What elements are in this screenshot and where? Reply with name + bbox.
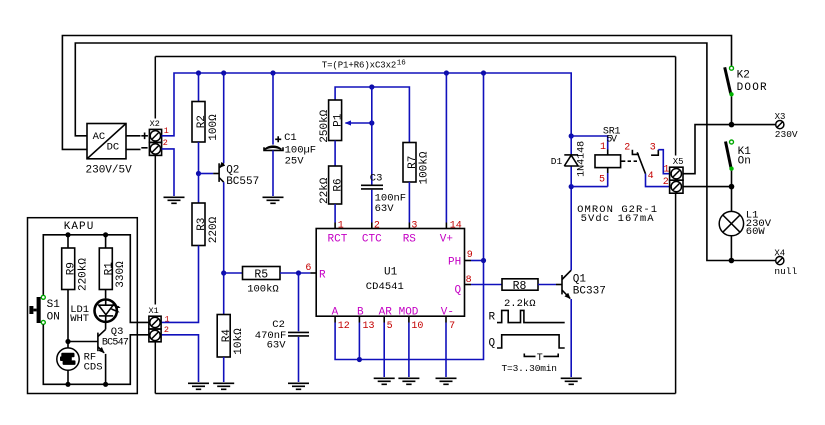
svg-text:R5: R5 bbox=[254, 269, 268, 282]
wire V- pin 7 to ground bbox=[445, 316, 447, 322]
relay SR1 coil bbox=[571, 126, 657, 224]
svg-text:1: 1 bbox=[600, 142, 606, 153]
capacitor C3 100nF bbox=[361, 173, 406, 215]
svg-text:Q2: Q2 bbox=[226, 164, 239, 176]
svg-text:5: 5 bbox=[387, 321, 393, 332]
svg-text:R2: R2 bbox=[196, 115, 208, 128]
svg-text:X1: X1 bbox=[149, 306, 159, 316]
svg-text:100Ω: 100Ω bbox=[208, 114, 220, 141]
svg-text:DOOR: DOOR bbox=[737, 82, 767, 94]
wire R8 to Q1 base bbox=[538, 284, 556, 286]
waveform Q with period T bbox=[489, 335, 565, 374]
wire P1 to R6 bbox=[334, 141, 336, 167]
wire mains phase: X2-2 up over top to K2 bbox=[62, 36, 731, 150]
svg-text:1: 1 bbox=[165, 315, 170, 325]
svg-text:7: 7 bbox=[449, 321, 455, 332]
wire rail to U1 pin 14 V+ bbox=[445, 73, 447, 223]
svg-text:9: 9 bbox=[467, 250, 473, 261]
junction relay top bbox=[569, 133, 574, 138]
junction at X3 bbox=[729, 122, 735, 128]
svg-text:2: 2 bbox=[163, 138, 168, 148]
svg-text:S1: S1 bbox=[47, 299, 61, 311]
svg-text:P1: P1 bbox=[333, 113, 345, 127]
LED LD1 WHT bbox=[70, 290, 120, 326]
junction lamp/X4/neutral bbox=[729, 258, 735, 264]
wire base node down to R3 bbox=[198, 174, 200, 204]
svg-text:BC337: BC337 bbox=[573, 285, 606, 297]
wire R7 to U1 pin 3 bbox=[408, 182, 410, 223]
svg-text:X4: X4 bbox=[774, 248, 785, 258]
terminal X4 null bbox=[774, 248, 797, 277]
wire contact pin 3 to X5-1 bbox=[658, 150, 669, 174]
wire X1-2 to ground bbox=[162, 335, 199, 382]
svg-text:25V: 25V bbox=[285, 156, 305, 168]
svg-text:DC: DC bbox=[107, 142, 120, 154]
svg-text:2.2kΩ: 2.2kΩ bbox=[504, 298, 536, 310]
wire R4 to ground bbox=[223, 357, 225, 382]
junction R9/LDR/Q3 base bbox=[65, 339, 70, 344]
svg-text:1: 1 bbox=[164, 126, 169, 136]
svg-text:2: 2 bbox=[164, 325, 169, 335]
resistor R7 100k bbox=[403, 143, 431, 185]
wire contact pin 4 to X5-2 bbox=[646, 174, 670, 187]
svg-text:R: R bbox=[489, 312, 496, 324]
transistor Q3 BC547 (NPN) bbox=[98, 322, 129, 385]
rail junction dots bbox=[196, 70, 201, 75]
svg-text:T=3..30min: T=3..30min bbox=[502, 363, 558, 374]
KAPU module box bbox=[28, 218, 138, 394]
svg-text:null: null bbox=[774, 266, 797, 277]
svg-text:4: 4 bbox=[648, 171, 654, 182]
wire KAPU top net: S1 top, R9, R1, X1-1 bbox=[43, 235, 149, 323]
svg-text:C3: C3 bbox=[370, 173, 383, 185]
svg-text:3: 3 bbox=[650, 143, 656, 154]
wire timing node to C3 and pin 2 bbox=[371, 87, 373, 185]
capacitor C1 100uF polarized bbox=[264, 132, 316, 196]
wire timing net: P1 top to R7 top bbox=[335, 87, 409, 143]
IC U1 CD4541 bbox=[316, 220, 473, 332]
wire Q2 collector down to R5 node bbox=[223, 182, 225, 273]
switch K2 DOOR bbox=[725, 66, 767, 96]
svg-text:220Ω: 220Ω bbox=[208, 216, 220, 243]
svg-text:V-: V- bbox=[441, 307, 454, 319]
svg-text:R8: R8 bbox=[513, 280, 527, 293]
wire Q1 collector to relay node bbox=[570, 187, 572, 271]
svg-text:100kΩ: 100kΩ bbox=[247, 283, 279, 295]
svg-text:CTC: CTC bbox=[362, 234, 382, 246]
diode D1 1N4148 bbox=[551, 136, 588, 187]
wire pin 13 B to A/B line bbox=[358, 323, 360, 360]
ground at X1-2 bbox=[188, 383, 209, 389]
svg-text:13: 13 bbox=[363, 321, 375, 332]
svg-text:63V: 63V bbox=[375, 203, 395, 215]
wire K2 to X3 junction bbox=[731, 97, 733, 125]
resistor R4 10k bbox=[217, 315, 245, 358]
wire junction to lamp bbox=[731, 187, 733, 212]
svg-text:Q3: Q3 bbox=[111, 326, 124, 338]
svg-text:D1: D1 bbox=[551, 156, 563, 167]
svg-text:AC: AC bbox=[93, 131, 106, 143]
wire AR pin 5 to ground bbox=[383, 316, 385, 322]
ground at Q1 bbox=[561, 378, 582, 384]
potentiometer P1 250k bbox=[319, 100, 375, 143]
wire MOD pin 10 to ground bbox=[408, 316, 410, 322]
svg-text:X5: X5 bbox=[673, 157, 684, 167]
svg-text:230V: 230V bbox=[775, 129, 798, 140]
wire Q pin 8 to R8 bbox=[465, 284, 472, 286]
svg-text:V+: V+ bbox=[440, 234, 453, 246]
junction Q2 collector / R4 / R5 bbox=[221, 270, 226, 275]
transistor Q1 BC337 (NPN) bbox=[562, 270, 606, 298]
junction K1/X5-2/lamp bbox=[729, 184, 735, 190]
wire KAPU bottom net: S1 bottom, LDR, Q3 emitter, X1-2 bbox=[43, 325, 149, 385]
junction relay bottom bbox=[569, 184, 574, 189]
wire R2 to base node bbox=[198, 142, 200, 174]
terminal X3 230V bbox=[775, 112, 798, 140]
X5 terminal block bbox=[663, 157, 684, 193]
timing formula bbox=[322, 59, 407, 70]
resistor R9 220k bbox=[62, 235, 90, 348]
lamp L1 230V 60W bbox=[719, 210, 772, 238]
capacitor C2 470nF bbox=[255, 319, 309, 382]
svg-text:2: 2 bbox=[374, 220, 380, 231]
svg-text:BC547: BC547 bbox=[102, 338, 129, 349]
svg-text:RCT: RCT bbox=[328, 234, 348, 246]
svg-text:X3: X3 bbox=[775, 112, 786, 122]
svg-text:22kΩ: 22kΩ bbox=[319, 177, 331, 204]
svg-text:BC557: BC557 bbox=[226, 176, 259, 188]
wire rail to Q2 emitter bbox=[223, 73, 225, 163]
svg-text:12: 12 bbox=[338, 321, 350, 332]
transistor Q2 BC557 (PNP) bbox=[219, 163, 259, 188]
AC/DC converter module 230V/5V bbox=[86, 124, 141, 177]
svg-text:60W: 60W bbox=[746, 226, 766, 238]
svg-text:2: 2 bbox=[663, 177, 669, 188]
resistor R6 22k bbox=[319, 166, 345, 204]
pushbutton S1 ON bbox=[29, 295, 60, 324]
svg-text:R1: R1 bbox=[103, 262, 115, 276]
wire X2-2 down to ground bbox=[162, 149, 174, 196]
wire X5-2 to K1 bottom junction bbox=[683, 186, 732, 188]
resistor R5 100k bbox=[243, 267, 281, 296]
svg-text:1: 1 bbox=[663, 164, 669, 175]
wire mains neutral: X2-1 over top to lamp return bbox=[75, 43, 775, 261]
ground at MOD bbox=[398, 378, 419, 384]
resistor R2 100 ohm bbox=[192, 102, 220, 143]
svg-text:2: 2 bbox=[624, 143, 630, 154]
svg-text:AR: AR bbox=[379, 307, 393, 319]
svg-text:R3: R3 bbox=[196, 218, 208, 231]
svg-text:PH: PH bbox=[448, 257, 461, 269]
svg-text:B: B bbox=[357, 307, 364, 319]
svg-text:Q: Q bbox=[455, 285, 462, 297]
photoresistor RF CDS bbox=[57, 348, 103, 384]
svg-text:R9: R9 bbox=[66, 262, 78, 275]
wire R6 to U1 pin 1 bbox=[334, 204, 336, 223]
ground at AR bbox=[374, 378, 395, 384]
wire X2-1 to +5V rail and rail to relay column bbox=[162, 73, 572, 136]
svg-text:Q1: Q1 bbox=[573, 273, 587, 285]
ground at R4 bbox=[213, 383, 234, 389]
relay contact (pins 2-3-4) bbox=[624, 143, 658, 183]
wire node to R5 bbox=[224, 272, 243, 274]
svg-text:RS: RS bbox=[403, 234, 417, 246]
svg-text:ON: ON bbox=[47, 312, 60, 324]
svg-text:X2: X2 bbox=[150, 119, 160, 129]
low-voltage section frame bbox=[155, 57, 675, 394]
ground at V- bbox=[436, 378, 457, 384]
X1 terminal block bbox=[149, 306, 170, 342]
ground at C2 bbox=[288, 383, 309, 389]
wire PH pin 9 to A/B line bbox=[465, 260, 472, 262]
wire Q3 base bbox=[68, 341, 98, 343]
resistor R8 2.2k bbox=[502, 279, 538, 310]
svg-text:63V: 63V bbox=[267, 339, 287, 351]
wire K1 to lamp junction bbox=[731, 171, 733, 187]
wire R3 to X1-1 bbox=[162, 246, 199, 323]
wire rail to C1 bbox=[272, 73, 274, 145]
svg-text:5Vdc 167mA: 5Vdc 167mA bbox=[581, 213, 655, 225]
svg-text:R6: R6 bbox=[333, 178, 345, 191]
svg-text:230V/5V: 230V/5V bbox=[86, 165, 133, 177]
svg-text:CD4541: CD4541 bbox=[366, 281, 404, 293]
wire base node to Q2 bbox=[199, 173, 214, 175]
svg-text:Q: Q bbox=[489, 337, 496, 349]
svg-text:6: 6 bbox=[305, 263, 311, 274]
svg-text:14: 14 bbox=[450, 220, 462, 231]
svg-text:K2: K2 bbox=[737, 70, 750, 82]
waveform R bbox=[489, 310, 565, 323]
svg-text:10kΩ: 10kΩ bbox=[233, 328, 245, 355]
svg-text:220kΩ: 220kΩ bbox=[78, 258, 90, 291]
wire Q1 emitter to ground bbox=[570, 299, 572, 377]
svg-text:5: 5 bbox=[599, 175, 605, 186]
wire R5 to U1 pin R, junction with C2 bbox=[280, 272, 310, 274]
svg-text:16: 16 bbox=[397, 59, 407, 67]
wire node to R4 bbox=[223, 273, 225, 315]
svg-text:3: 3 bbox=[411, 220, 417, 231]
svg-text:R7: R7 bbox=[407, 156, 419, 169]
wire X5-1 to K2/K1 junction and X3 bbox=[683, 125, 775, 174]
ground at C1 bbox=[263, 197, 284, 203]
svg-text:R4: R4 bbox=[221, 329, 233, 343]
wire pin6 node to C2 bbox=[298, 273, 300, 331]
svg-text:5V: 5V bbox=[606, 135, 617, 146]
svg-text:CDS: CDS bbox=[84, 362, 103, 374]
switch K1 On bbox=[726, 140, 752, 171]
wire lamp to bottom junction bbox=[730, 236, 732, 261]
resistor R3 220 ohm bbox=[192, 203, 220, 246]
junction R2/R3/Q2 base bbox=[196, 171, 201, 176]
svg-text:C1: C1 bbox=[284, 132, 297, 144]
svg-text:T=(P1+R6)xC3x2: T=(P1+R6)xC3x2 bbox=[322, 61, 397, 71]
svg-text:10: 10 bbox=[411, 321, 423, 332]
svg-text:1N4148: 1N4148 bbox=[576, 141, 587, 177]
svg-text:KAPU: KAPU bbox=[64, 221, 94, 233]
svg-text:On: On bbox=[738, 156, 751, 168]
X2 terminal block bbox=[141, 119, 169, 155]
svg-text:330Ω: 330Ω bbox=[115, 261, 127, 288]
resistor R1 330 ohm bbox=[99, 235, 127, 290]
svg-text:U1: U1 bbox=[384, 266, 398, 278]
svg-text:250kΩ: 250kΩ bbox=[319, 109, 331, 142]
ground at X2-2 bbox=[164, 197, 185, 203]
svg-text:100kΩ: 100kΩ bbox=[419, 151, 431, 184]
wire rail to R2 bbox=[198, 73, 200, 102]
svg-text:WHT: WHT bbox=[70, 313, 89, 325]
svg-text:R: R bbox=[319, 270, 326, 282]
svg-text:1: 1 bbox=[338, 220, 344, 231]
